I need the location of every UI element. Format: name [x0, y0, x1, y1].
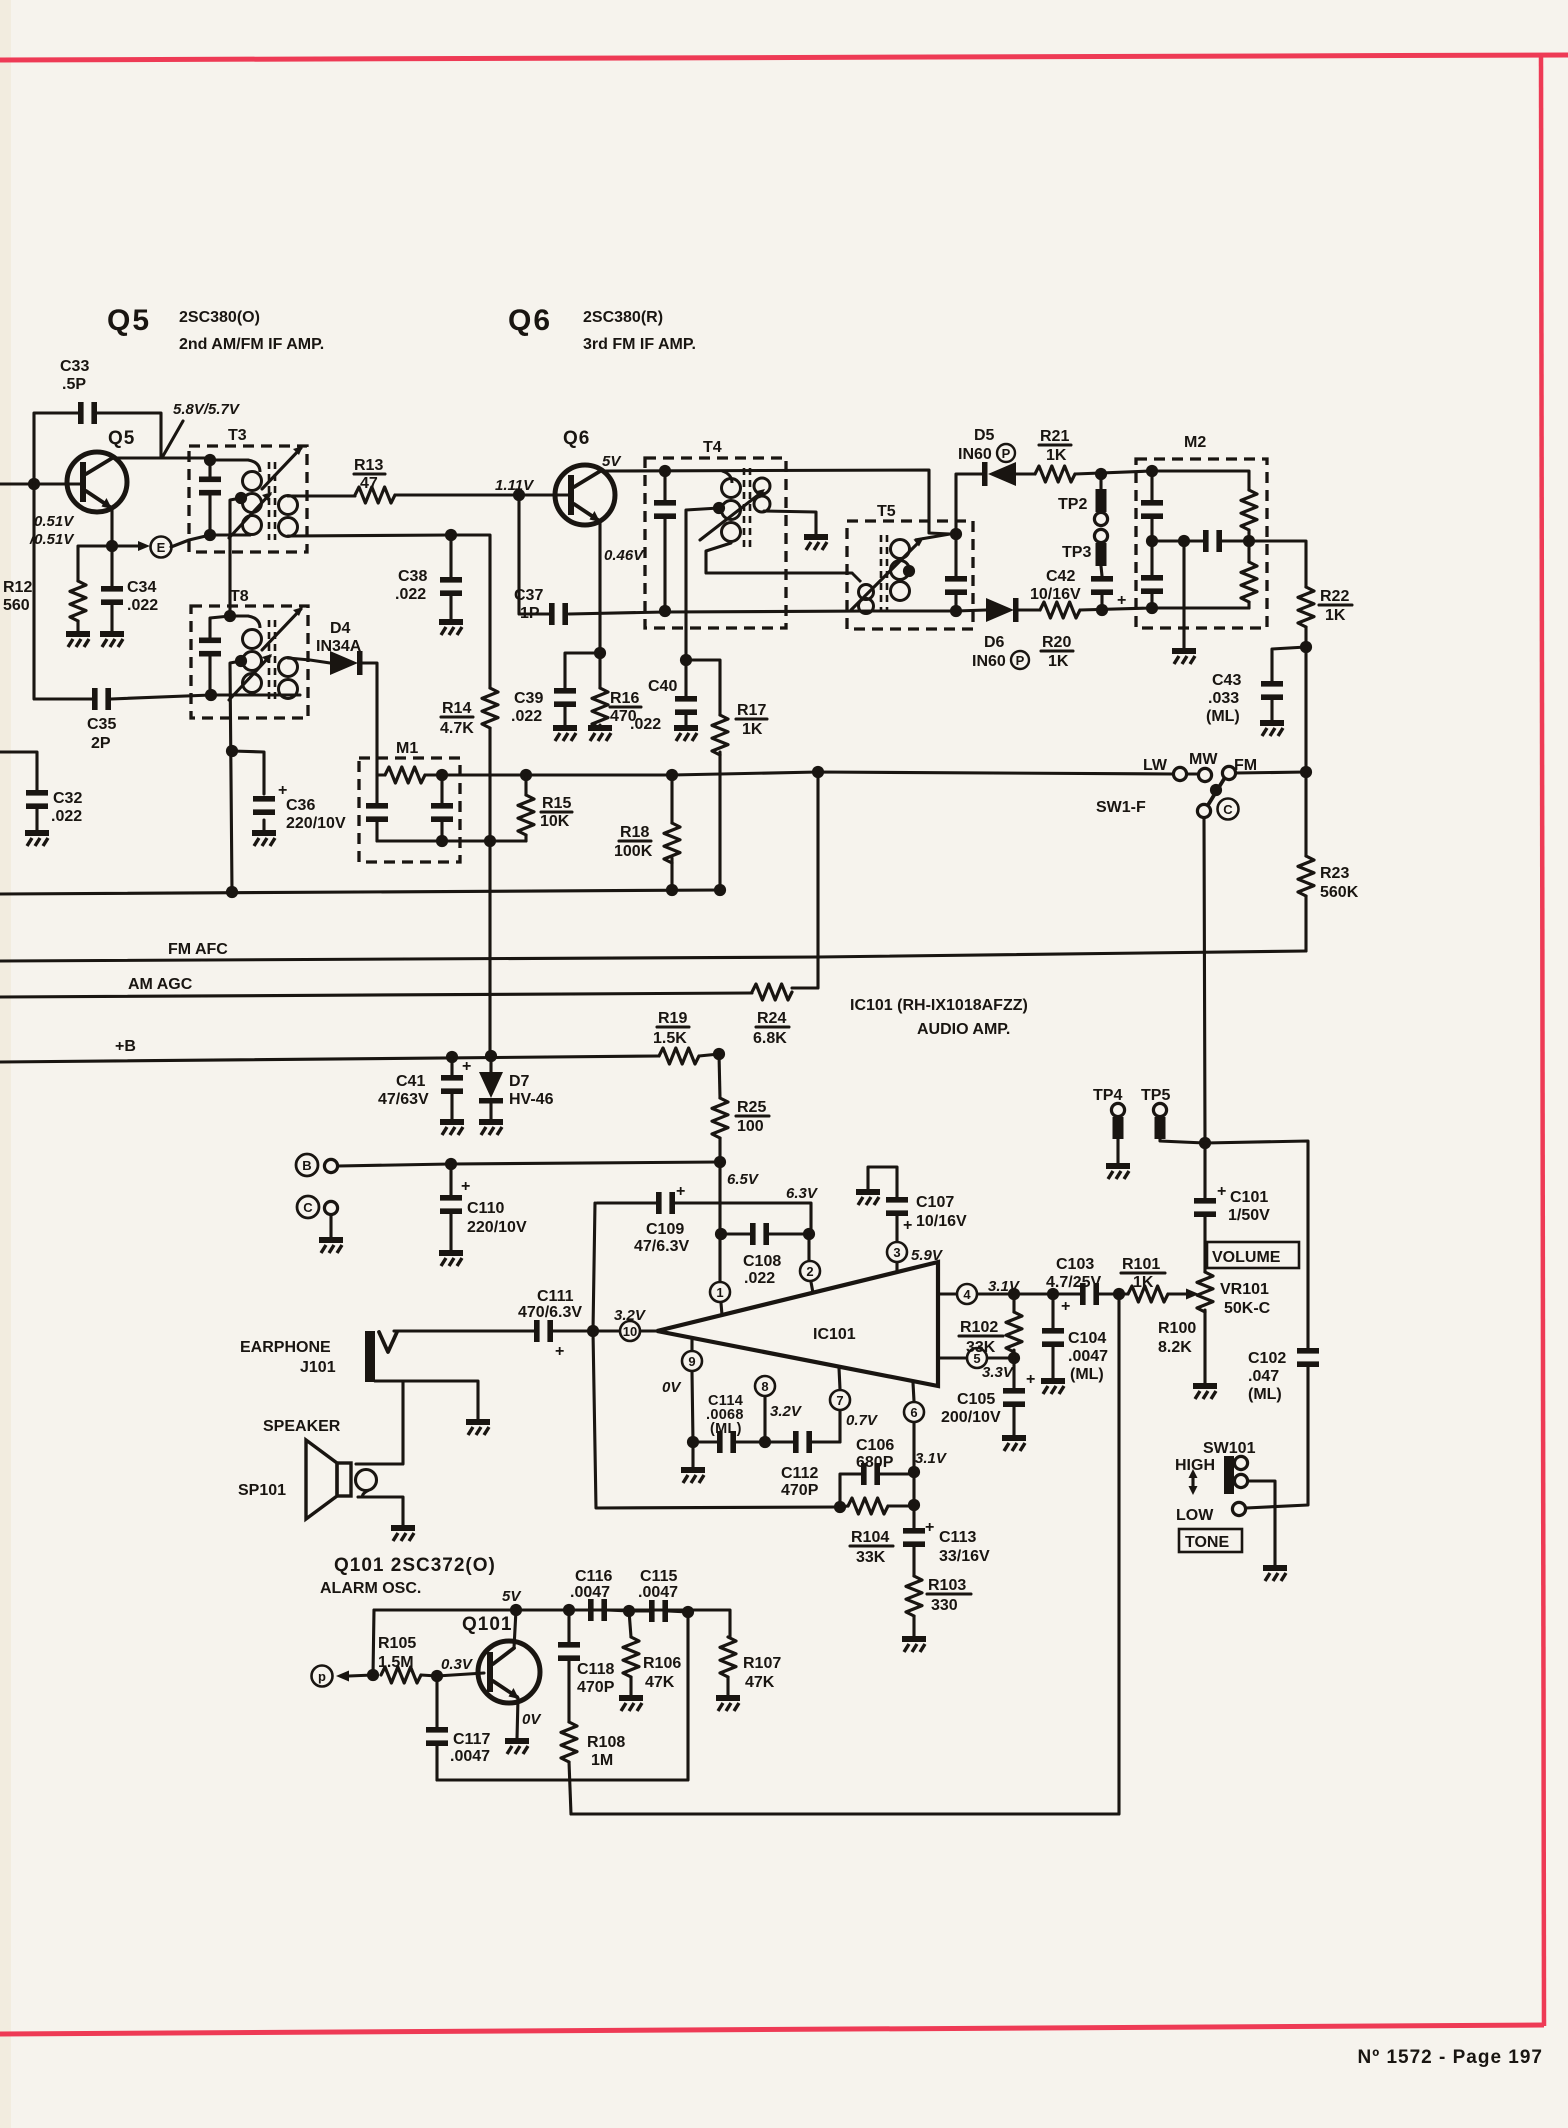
ground terminal C: [319, 1240, 343, 1253]
svg-text:2SC380(O): 2SC380(O): [179, 309, 260, 326]
wire Q101 left leg: [373, 1610, 374, 1675]
node TP2: [1095, 468, 1107, 480]
capacitor M2 lower left: [1141, 541, 1163, 608]
wire: T3 tap down to T8: [230, 498, 241, 616]
svg-text:R14: R14: [442, 700, 471, 717]
node M2 mid left: [1146, 535, 1158, 547]
svg-text:47/6.3V: 47/6.3V: [634, 1238, 689, 1255]
trimmer arrow T3 upper: [262, 448, 301, 489]
pin 5: [938, 1348, 1015, 1381]
contact LW: [1173, 767, 1186, 780]
capacitor C117: [426, 1676, 490, 1780]
svg-text:C32: C32: [53, 790, 82, 807]
svg-text:C113: C113: [939, 1529, 976, 1546]
wire alarm osc bottom rail: [437, 1612, 688, 1780]
capacitor T8 internal: [199, 616, 230, 695]
svg-text:560K: 560K: [1320, 884, 1359, 901]
capacitor C108: [721, 1223, 809, 1287]
node pin5: [1008, 1352, 1020, 1364]
svg-text:SP101: SP101: [238, 1482, 286, 1499]
pin 6: [904, 1383, 924, 1528]
svg-text:100: 100: [737, 1118, 764, 1135]
node M2 ground branch: [1178, 535, 1190, 547]
winding T3 primary: [210, 460, 262, 535]
svg-text:R15: R15: [542, 795, 571, 812]
core T3: [269, 462, 275, 540]
TONE boxed label: [1179, 1529, 1242, 1552]
trimmer arrow T5: [851, 541, 920, 610]
winding T3 secondary: [279, 496, 298, 537]
resistor R24: [752, 984, 792, 1047]
node C104 branch: [1047, 1288, 1059, 1300]
svg-text:+: +: [462, 1058, 471, 1075]
svg-text:VOLUME: VOLUME: [1212, 1249, 1281, 1266]
pin 2: [800, 1234, 820, 1293]
svg-text:(ML): (ML): [1206, 708, 1240, 725]
svg-text:C101: C101: [1230, 1189, 1268, 1206]
capacitor C39: [511, 653, 600, 726]
svg-text:C110: C110: [467, 1200, 504, 1217]
svg-text:3.2V: 3.2V: [770, 1403, 803, 1420]
svg-text:R16: R16: [610, 690, 639, 707]
capacitor M1 left: [366, 803, 388, 822]
svg-text:C108: C108: [743, 1253, 781, 1270]
contact MW: [1198, 768, 1211, 781]
ground R103: [902, 1639, 926, 1652]
svg-text:8.2K: 8.2K: [1158, 1339, 1192, 1356]
svg-text:C: C: [303, 1200, 313, 1215]
resistor M2 lower right: [1241, 530, 1257, 608]
contact FM: [1222, 766, 1235, 779]
wire: left AGC vertical down to C35: [34, 484, 92, 699]
capacitor C105 electrolytic: [941, 1358, 1035, 1436]
svg-text:T4: T4: [703, 439, 722, 456]
wire to C36: [232, 751, 264, 831]
svg-text:0.51V: 0.51V: [34, 513, 75, 530]
svg-text:.022: .022: [744, 1270, 775, 1287]
wire: T3 bottom to E: [171, 535, 250, 547]
node C108 right: [803, 1228, 815, 1240]
node C118 top: [563, 1604, 575, 1616]
wire: Q5 base input from left edge: [0, 482, 80, 485]
svg-text:.022: .022: [511, 708, 542, 725]
resistor R108: [561, 1722, 625, 1814]
capacitor M1 right: [425, 775, 453, 841]
node R101 left: [1113, 1288, 1125, 1300]
terminal P circled: [312, 1666, 333, 1687]
svg-text:LOW: LOW: [1176, 1507, 1214, 1524]
svg-text:10: 10: [623, 1324, 637, 1339]
wire T4 secondary to ground: [764, 511, 816, 535]
node R104 left: [834, 1501, 846, 1513]
svg-text:C106: C106: [856, 1437, 894, 1454]
resistor M1 internal: [385, 767, 425, 783]
svg-text:Q5: Q5: [108, 428, 135, 449]
svg-text:470P: 470P: [781, 1482, 819, 1499]
node T3 tap: [235, 492, 247, 504]
wire C109 column: [593, 1203, 595, 1331]
resistor R16: [592, 653, 641, 728]
node C108 left: [715, 1228, 727, 1240]
wire arm down to volume line: [1204, 818, 1205, 1143]
svg-text:Q101 2SC372(O): Q101 2SC372(O): [334, 1555, 496, 1576]
resistor R14: [440, 688, 498, 841]
svg-text:T5: T5: [877, 503, 896, 520]
capacitor C110 electrolytic: [440, 1164, 527, 1251]
capacitor C118: [558, 1610, 615, 1722]
svg-text:D7: D7: [509, 1073, 530, 1090]
trimmer arrow T3 lower: [229, 494, 270, 538]
svg-text:+: +: [1217, 1183, 1226, 1200]
wire feedback rail to volume node: [571, 1294, 1119, 1814]
svg-text:+B: +B: [115, 1038, 136, 1055]
wire: T8 tap down to AGC bus: [230, 661, 241, 892]
svg-text:1K: 1K: [1133, 1274, 1154, 1291]
svg-text:C102: C102: [1248, 1350, 1286, 1367]
svg-text:IC101: IC101: [813, 1326, 856, 1343]
ground C38: [439, 622, 463, 635]
wire T4 tap to AM IF column: [686, 508, 719, 660]
ground R16: [588, 728, 612, 741]
svg-text:100K: 100K: [614, 843, 653, 860]
volume line node: [1199, 1137, 1211, 1149]
diode D4: [316, 620, 363, 675]
node T3 top: [204, 454, 216, 466]
svg-text:E: E: [157, 540, 166, 555]
svg-text:Q5: Q5: [107, 304, 151, 337]
svg-text:2SC380(R): 2SC380(R): [583, 309, 663, 326]
bus line +B to R19: [0, 1056, 659, 1062]
svg-text:C40: C40: [648, 678, 677, 695]
svg-text:C37: C37: [514, 587, 543, 604]
wire FM to R23 node: [1236, 772, 1306, 773]
svg-text:6.8K: 6.8K: [753, 1030, 787, 1047]
wire T4/T5 bottom rail (C37 line continues): [665, 611, 956, 612]
svg-text:C38: C38: [398, 568, 427, 585]
svg-text:.0047: .0047: [450, 1748, 490, 1765]
svg-text:C104: C104: [1068, 1330, 1106, 1347]
capacitor C42 electrolytic: [1030, 568, 1126, 610]
svg-text:C112: C112: [781, 1465, 818, 1482]
node C37 branch: [513, 489, 525, 501]
wire: C33 right leg down to collector line: [97, 413, 161, 458]
svg-text:+: +: [461, 1178, 470, 1195]
earphone jack J101: [240, 1331, 478, 1420]
arrow tone high-low: [1189, 1469, 1198, 1495]
wire C37 column and link: [519, 495, 665, 614]
transformer T8 dashed box: [191, 606, 308, 718]
node T8 top: [224, 610, 236, 622]
wire Q101 collector: [514, 1610, 516, 1648]
capacitor C113 electrolytic: [903, 1519, 990, 1576]
svg-text:33/16V: 33/16V: [939, 1548, 990, 1565]
svg-text:1K: 1K: [1325, 607, 1346, 624]
node C106 right: [908, 1466, 920, 1478]
node pin9 bottom: [687, 1436, 699, 1448]
svg-text:R19: R19: [658, 1010, 687, 1027]
switch SW101 tone: [1175, 1440, 1256, 1524]
svg-text:3.3V: 3.3V: [982, 1364, 1015, 1381]
svg-text:3: 3: [893, 1245, 900, 1260]
svg-text:1K: 1K: [1048, 653, 1069, 670]
svg-text:+: +: [1061, 1298, 1070, 1315]
node R15 top: [520, 769, 532, 781]
node R25 bottom: [714, 1156, 726, 1168]
node T8 tap on bus: [226, 886, 238, 898]
capacitor C35: [87, 688, 116, 752]
svg-text:SW101: SW101: [1203, 1440, 1256, 1457]
svg-text:R24: R24: [757, 1010, 786, 1027]
svg-text:220/10V: 220/10V: [286, 815, 346, 832]
resistor R107: [720, 1637, 781, 1696]
wire M2 mid rail with cap: [1152, 539, 1249, 542]
node Q101 base: [431, 1670, 443, 1682]
wire M2 mid out to R22: [1249, 541, 1306, 587]
svg-text:C35: C35: [87, 716, 116, 733]
svg-text:.022: .022: [395, 586, 426, 603]
svg-text:33K: 33K: [966, 1339, 996, 1356]
capacitor C38: [395, 529, 462, 619]
capacitor C101 electrolytic: [1194, 1143, 1270, 1243]
svg-text:D5: D5: [974, 427, 995, 444]
capacitor T3 internal: [199, 460, 221, 535]
transistor Q5: [67, 428, 135, 512]
svg-text:2nd AM/FM IF AMP.: 2nd AM/FM IF AMP.: [179, 336, 324, 353]
pin 1: [710, 1282, 730, 1315]
capacitor C37: [514, 587, 568, 625]
test point TP4: [1093, 1087, 1125, 1164]
resistor M2 upper right: [1241, 490, 1257, 530]
svg-text:C103: C103: [1056, 1256, 1094, 1273]
svg-text:R105: R105: [378, 1635, 416, 1652]
svg-text:R103: R103: [928, 1577, 966, 1594]
ground C107: [856, 1192, 880, 1205]
node T5 tap: [903, 565, 915, 577]
svg-text:5.8V/5.7V: 5.8V/5.7V: [173, 401, 241, 418]
diode D6: [956, 598, 1029, 670]
capacitor C114: [693, 1393, 765, 1453]
wire AGC riser to detector bus: [792, 772, 818, 988]
svg-text:1M: 1M: [591, 1752, 613, 1769]
wire R22 node to FM contact: [1304, 647, 1307, 772]
ground T4 secondary: [804, 537, 828, 550]
node AM IF takeoff: [680, 654, 692, 666]
svg-text:220/10V: 220/10V: [467, 1219, 527, 1236]
wire R14 column down to +B: [488, 841, 491, 1055]
node R104 right: [908, 1499, 920, 1511]
resistor R20: [1040, 602, 1080, 670]
node M2 top left: [1146, 465, 1158, 477]
pin 7: [830, 1368, 879, 1442]
svg-text:.0047: .0047: [570, 1584, 610, 1601]
svg-text:1P: 1P: [520, 605, 540, 622]
svg-text:(ML): (ML): [1248, 1386, 1282, 1403]
capacitor M2 coupling: [1203, 530, 1222, 552]
trimmer arrow T8 upper: [262, 609, 301, 650]
transistor Q101: [462, 1614, 540, 1703]
svg-text:7: 7: [836, 1393, 843, 1408]
svg-text:680P: 680P: [856, 1454, 894, 1471]
svg-text:C36: C36: [286, 797, 315, 814]
capacitor C109 electrolytic: [597, 1183, 811, 1255]
svg-text:C109: C109: [646, 1221, 684, 1238]
switch arm SW1-F: [1208, 779, 1224, 805]
svg-text:5V: 5V: [602, 453, 622, 470]
svg-text:2P: 2P: [91, 735, 111, 752]
capacitor C40: [630, 660, 697, 733]
pin 8: [755, 1376, 803, 1442]
bus line AM AGC to R24: [0, 993, 752, 997]
capacitor C32: [26, 790, 82, 825]
resistor R15: [518, 775, 572, 841]
svg-text:C43: C43: [1212, 672, 1241, 689]
svg-text:R25: R25: [737, 1099, 766, 1116]
VOLUME boxed label: [1207, 1242, 1299, 1268]
capacitor C33: [60, 358, 97, 424]
node C114 right: [759, 1436, 771, 1448]
svg-text:R108: R108: [587, 1734, 625, 1751]
terminal B circled: [296, 1154, 338, 1176]
svg-text:8: 8: [761, 1379, 768, 1394]
wire: C35 to T8 bottom rail: [111, 695, 300, 699]
svg-text:1K: 1K: [742, 721, 763, 738]
svg-text:R18: R18: [620, 824, 649, 841]
capacitor C107 electrolytic: [868, 1167, 967, 1241]
svg-text:200/10V: 200/10V: [941, 1409, 1001, 1426]
transformer T5 dashed box: [847, 521, 973, 629]
ground pin9: [681, 1470, 705, 1483]
bus line B (AGC rail): [0, 890, 722, 894]
node T5 bottom: [950, 605, 962, 617]
svg-text:C107: C107: [916, 1194, 954, 1211]
ground earphone: [466, 1422, 490, 1435]
node C116 right: [623, 1605, 635, 1617]
resistor R23: [1298, 772, 1359, 951]
pin 4: [938, 1278, 1080, 1304]
capacitor C111 electrolytic: [518, 1288, 593, 1360]
svg-text:R106: R106: [643, 1655, 681, 1672]
svg-text:4.7/25V: 4.7/25V: [1046, 1274, 1101, 1291]
svg-text:+: +: [676, 1183, 685, 1200]
wire audio input line: [394, 1329, 534, 1332]
resistor R105: [378, 1635, 437, 1683]
svg-text:50K-C: 50K-C: [1224, 1300, 1271, 1317]
wire Q6 emitter column: [598, 522, 601, 653]
resistor R104: [840, 1498, 914, 1566]
svg-text:M1: M1: [396, 740, 418, 757]
wire C to ground: [329, 1215, 332, 1238]
node T5 top: [950, 528, 962, 540]
node D7 on +B: [485, 1050, 497, 1062]
svg-text:R20: R20: [1042, 634, 1071, 651]
svg-text:+: +: [1026, 1371, 1035, 1388]
svg-text:D4: D4: [330, 620, 351, 637]
wire base lead: [437, 1673, 484, 1676]
wire M2 bottom rail: [1152, 606, 1249, 609]
node M2 mid right: [1243, 535, 1255, 547]
capacitor C104: [1042, 1294, 1108, 1383]
svg-text:R13: R13: [354, 457, 383, 474]
diode D7 zener: [479, 1056, 554, 1120]
svg-text:.0047: .0047: [1068, 1348, 1108, 1365]
wire M1 bottom rail to R15: [377, 839, 526, 842]
meter M2 dashed box: [1136, 459, 1267, 628]
capacitor C116: [569, 1568, 629, 1621]
svg-text:AM AGC: AM AGC: [128, 976, 193, 993]
speaker SP101: [238, 1382, 403, 1526]
svg-text:(ML): (ML): [1070, 1366, 1104, 1383]
node C115 right: [682, 1606, 694, 1618]
wire T5 top riser to D5: [956, 474, 982, 534]
svg-text:+: +: [925, 1519, 934, 1536]
svg-text:C41: C41: [396, 1073, 425, 1090]
node R102 top: [1008, 1288, 1020, 1300]
winding T8 primary: [230, 616, 262, 693]
ground C105: [1002, 1438, 1026, 1451]
winding T5 secondary: [891, 534, 951, 601]
pin 3: [887, 1242, 944, 1272]
svg-text:33K: 33K: [856, 1549, 886, 1566]
svg-text:47: 47: [360, 475, 378, 492]
capacitor C43: [1206, 647, 1306, 725]
capacitor M2 upper left: [1141, 471, 1163, 541]
capacitor C34: [101, 546, 158, 632]
ground TP4: [1106, 1166, 1130, 1179]
svg-text:3.1V: 3.1V: [915, 1450, 948, 1467]
svg-text:M2: M2: [1184, 434, 1206, 451]
svg-text:P: P: [1016, 653, 1025, 668]
svg-text:.022: .022: [51, 808, 82, 825]
svg-text:TP5: TP5: [1141, 1087, 1170, 1104]
svg-text:IN60: IN60: [972, 653, 1006, 670]
ground C32: [25, 833, 49, 846]
svg-text:D6: D6: [984, 634, 1005, 651]
svg-text:+: +: [903, 1217, 912, 1234]
terminal C circled: [297, 1196, 338, 1218]
transformer T3 dashed box: [189, 446, 307, 552]
wire B rail: [338, 1162, 720, 1166]
svg-text:C34: C34: [127, 579, 156, 596]
ground VR101: [1193, 1386, 1217, 1399]
contact arm pivot: [1197, 804, 1210, 817]
ground C36: [252, 833, 276, 846]
ground C41: [440, 1122, 464, 1135]
svg-text:EARPHONE: EARPHONE: [240, 1339, 331, 1356]
ground D7: [479, 1122, 503, 1135]
node C circled: [1218, 799, 1239, 820]
ground C104: [1041, 1381, 1065, 1394]
svg-text:6: 6: [910, 1405, 917, 1420]
svg-text:C39: C39: [514, 690, 543, 707]
ground C39: [553, 728, 577, 741]
svg-text:47K: 47K: [645, 1674, 675, 1691]
svg-text:ALARM OSC.: ALARM OSC.: [320, 1580, 421, 1597]
node R14 bottom rail: [484, 835, 496, 847]
svg-text:IN34A: IN34A: [316, 638, 362, 655]
svg-text:B: B: [302, 1158, 311, 1173]
node: Q5 base junction: [28, 478, 40, 490]
node M1 right bottom: [436, 835, 448, 847]
svg-text:R23: R23: [1320, 865, 1349, 882]
svg-text:C33: C33: [60, 358, 89, 375]
wire: Q5 collector to T3: [112, 456, 210, 459]
svg-text:C: C: [1223, 802, 1233, 817]
svg-text:HV-46: HV-46: [509, 1091, 554, 1108]
wire T4 winding bottom to T5 primary: [706, 543, 852, 573]
diode D5: [958, 427, 1016, 486]
svg-text:R101: R101: [1122, 1256, 1160, 1273]
svg-text:VR101: VR101: [1220, 1281, 1269, 1298]
